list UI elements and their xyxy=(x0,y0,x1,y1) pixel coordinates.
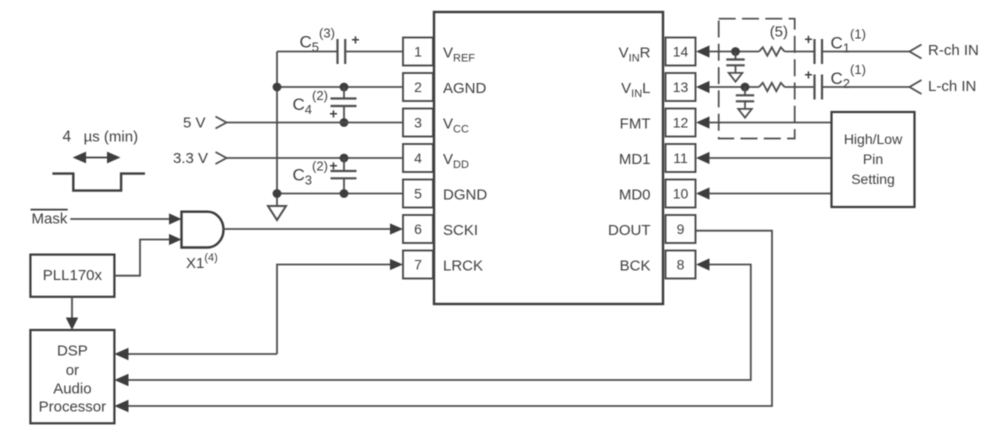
svg-text:LRCK: LRCK xyxy=(443,258,483,275)
pin label MD0 xyxy=(619,187,651,204)
wire PLL to DSP xyxy=(71,297,73,318)
arrow into DSP top xyxy=(114,348,128,360)
junction bus-DGND xyxy=(273,189,282,198)
svg-text:DOUT: DOUT xyxy=(608,222,651,239)
svg-text:2: 2 xyxy=(414,79,422,95)
L-ch IN label xyxy=(928,78,976,95)
svg-text:MD1: MD1 xyxy=(619,151,651,168)
svg-text:+: + xyxy=(329,158,337,174)
arrow into DSP middle from BCK xyxy=(114,374,128,386)
pin 8 box xyxy=(666,251,696,279)
pin 13 box xyxy=(666,73,696,101)
C4 plus sign xyxy=(329,105,337,121)
svg-text:1: 1 xyxy=(414,44,422,60)
wire MD1 xyxy=(709,157,832,159)
svg-text:or: or xyxy=(66,362,79,379)
DSP label line 3 xyxy=(53,381,91,398)
dashed option box xyxy=(719,19,795,139)
X1 reference label xyxy=(186,252,218,272)
svg-text:PLL170x: PLL170x xyxy=(43,267,103,284)
pin label DGND xyxy=(443,187,487,204)
svg-text:BCK: BCK xyxy=(620,258,651,275)
C5 plus sign xyxy=(351,32,359,48)
junction filter cap L xyxy=(741,83,750,92)
wire resistor to C2 xyxy=(785,86,815,88)
wire Mask to AND gate xyxy=(70,218,170,220)
svg-text:(5): (5) xyxy=(770,23,788,40)
5V source chevron xyxy=(216,117,227,129)
pin label VCC xyxy=(443,116,469,136)
DSP label line 1 xyxy=(57,343,88,360)
svg-text:VINL: VINL xyxy=(621,80,650,100)
svg-text:VREF: VREF xyxy=(443,45,475,65)
wire VCC xyxy=(227,122,404,124)
AND gate X1 xyxy=(182,212,224,248)
pin label LRCK xyxy=(443,258,483,275)
svg-text:5: 5 xyxy=(414,186,422,202)
pin label BCK xyxy=(620,258,651,275)
pin 10 box xyxy=(666,180,696,208)
pin 7 box xyxy=(403,251,433,279)
pin 3 box xyxy=(403,109,433,137)
svg-text:13: 13 xyxy=(673,79,689,95)
arrow into pin 10 MD0 xyxy=(696,187,710,199)
pin 6 box xyxy=(403,215,433,243)
svg-text:12: 12 xyxy=(673,115,689,131)
C3 plus sign xyxy=(329,158,337,174)
R-ch IN chevron xyxy=(910,45,922,59)
svg-text:Processor: Processor xyxy=(39,399,107,416)
High/Low Pin Setting box xyxy=(832,112,915,207)
DSP label line 2 xyxy=(66,362,79,379)
pin label MD1 xyxy=(619,151,651,168)
junction C3-DGND xyxy=(340,189,349,198)
pin 9 box xyxy=(666,215,696,243)
3.3V source chevron xyxy=(216,152,227,164)
wire C5 to ground bus xyxy=(277,51,338,53)
svg-text:+: + xyxy=(804,66,812,82)
capacitor C1 xyxy=(815,39,823,64)
Mask label xyxy=(32,211,68,228)
svg-text:DSP: DSP xyxy=(57,343,88,360)
svg-text:10: 10 xyxy=(673,186,689,202)
wire FMT xyxy=(709,122,832,124)
capacitor C3 xyxy=(331,158,357,194)
5V source label xyxy=(183,115,206,132)
svg-text:FMT: FMT xyxy=(620,116,651,133)
wire BCK xyxy=(128,265,751,381)
svg-text:µs (min): µs (min) xyxy=(84,129,138,146)
wire VINL to resistor xyxy=(709,86,759,88)
svg-text:Setting: Setting xyxy=(851,171,895,187)
arrow into pin 8 BCK xyxy=(696,258,710,270)
wire SCKI from AND output xyxy=(223,228,391,230)
svg-text:+: + xyxy=(804,31,812,47)
C1 value label xyxy=(831,27,866,56)
svg-text:VINR: VINR xyxy=(619,45,651,65)
PLL170x box xyxy=(30,255,114,297)
junction C4-VCC xyxy=(340,118,349,127)
svg-text:R-ch IN: R-ch IN xyxy=(928,42,979,59)
svg-text:DGND: DGND xyxy=(443,187,487,204)
svg-text:4: 4 xyxy=(63,129,72,146)
resistor L-ch xyxy=(759,83,785,91)
svg-text:Mask: Mask xyxy=(32,211,68,228)
junction C3-VDD xyxy=(340,154,349,163)
ground symbol bus xyxy=(268,206,286,220)
svg-text:5 V: 5 V xyxy=(183,115,206,132)
pin label SCKI xyxy=(443,222,478,239)
wire VINR to resistor xyxy=(709,51,759,53)
pin label VINR xyxy=(619,45,651,65)
C5 value label xyxy=(300,26,335,55)
svg-text:14: 14 xyxy=(673,44,689,60)
wire VDD xyxy=(227,157,404,159)
C1 plus sign xyxy=(804,31,812,47)
arrow into pin 13 VINL xyxy=(696,81,710,93)
svg-text:C5(3): C5(3) xyxy=(300,26,335,55)
svg-text:AGND: AGND xyxy=(443,80,487,97)
label (5) xyxy=(770,23,788,40)
filter capacitor R-ch xyxy=(726,52,744,73)
pin label VDD xyxy=(443,151,469,171)
filter capacitor L-ch xyxy=(736,87,754,109)
ground bus wire xyxy=(276,52,278,207)
svg-text:SCKI: SCKI xyxy=(443,222,478,239)
wire LRCK to DSP xyxy=(128,353,277,355)
junction bus-AGND xyxy=(273,83,282,92)
wire AGND xyxy=(277,86,403,88)
svg-text:X1(4): X1(4) xyxy=(186,252,218,272)
arrow into pin 12 FMT xyxy=(696,116,710,128)
C2 value label xyxy=(831,62,866,91)
arrow into pin 6 SCKI xyxy=(390,223,403,234)
pin label DOUT xyxy=(608,222,651,239)
svg-text:3.3 V: 3.3 V xyxy=(173,150,208,167)
arrow into DSP from PLL xyxy=(66,318,78,331)
arrow into pin 11 MD1 xyxy=(696,152,710,164)
capacitor C2 xyxy=(815,75,823,100)
pin label FMT xyxy=(620,116,651,133)
wire DGND xyxy=(277,193,403,195)
arrow into pin 14 VINR xyxy=(696,45,710,57)
svg-text:MD0: MD0 xyxy=(619,187,651,204)
wire resistor to C1 xyxy=(785,51,815,53)
Mask overline xyxy=(31,209,68,211)
svg-text:High/Low: High/Low xyxy=(844,131,903,147)
pin 11 box xyxy=(666,144,696,172)
wire LRCK horizontal xyxy=(277,265,391,355)
svg-text:VDD: VDD xyxy=(443,151,469,171)
arrow into pin 7 LRCK xyxy=(390,259,403,270)
svg-text:VCC: VCC xyxy=(443,116,469,136)
svg-text:+: + xyxy=(351,32,359,48)
pin label VINL xyxy=(621,80,650,100)
wire C1 to R-ch IN xyxy=(822,51,910,53)
pin 1 box xyxy=(403,38,433,66)
wire C2 to L-ch IN xyxy=(822,86,910,88)
svg-text:9: 9 xyxy=(677,221,685,237)
svg-text:Audio: Audio xyxy=(53,381,91,398)
svg-text:Pin: Pin xyxy=(863,151,883,167)
resistor R-ch xyxy=(759,47,785,55)
arrow into AND gate top input xyxy=(169,213,182,224)
C3 value label xyxy=(293,158,328,187)
arrow into AND gate bottom input xyxy=(169,234,182,245)
svg-text:C3(2): C3(2) xyxy=(293,158,328,187)
capacitor C5 xyxy=(338,39,346,64)
svg-text:7: 7 xyxy=(414,257,422,273)
DSP label line 4 xyxy=(39,399,107,416)
capacitor C4 xyxy=(331,87,357,123)
pulse width label xyxy=(63,129,139,146)
wire MD0 xyxy=(709,193,832,195)
3.3V source label xyxy=(173,150,208,167)
IC U1 main body xyxy=(434,12,663,304)
pin 4 box xyxy=(403,144,433,172)
svg-text:11: 11 xyxy=(673,150,688,166)
ground symbol L-ch filter xyxy=(738,109,752,118)
svg-text:8: 8 xyxy=(677,257,685,273)
pulse waveform xyxy=(52,174,145,191)
wire PLL to AND gate input xyxy=(114,240,169,276)
pin 14 box xyxy=(666,38,696,66)
pin 2 box xyxy=(403,73,433,101)
pin 12 box xyxy=(666,109,696,137)
pin label AGND xyxy=(443,80,487,97)
C2 plus sign xyxy=(804,66,812,82)
pin label VREF xyxy=(443,45,475,65)
wire DOUT xyxy=(128,231,772,406)
arrow into DSP bottom from DOUT xyxy=(114,400,128,412)
pulse width arrow xyxy=(73,152,121,164)
svg-text:3: 3 xyxy=(414,115,422,131)
svg-text:L-ch IN: L-ch IN xyxy=(928,78,976,95)
wire VREF to C5 xyxy=(345,51,403,53)
C4 value label xyxy=(293,88,328,117)
R-ch IN label xyxy=(928,42,979,59)
junction filter cap R xyxy=(731,47,740,56)
DSP box xyxy=(30,330,114,423)
svg-text:4: 4 xyxy=(414,150,422,166)
svg-text:C4(2): C4(2) xyxy=(293,88,328,117)
L-ch IN chevron xyxy=(910,80,922,94)
pin 5 box xyxy=(403,180,433,208)
svg-text:6: 6 xyxy=(414,221,422,237)
ground symbol R-ch filter xyxy=(729,73,743,82)
svg-text:+: + xyxy=(329,105,337,121)
junction C4-AGND xyxy=(340,83,349,92)
